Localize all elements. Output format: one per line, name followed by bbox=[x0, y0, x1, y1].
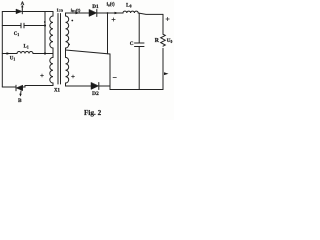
inductor L1 bbox=[17, 52, 33, 54]
plus mark output bbox=[166, 17, 169, 20]
primary polarity dot bbox=[44, 21, 46, 23]
inductor Lo bbox=[123, 11, 138, 13]
wire C1 rail bbox=[2, 25, 21, 27]
wire center tap to right bbox=[66, 50, 111, 90]
wire secondary top to D1 bbox=[66, 12, 90, 14]
wire primary bottom rail bbox=[23, 83, 53, 87]
svg-text:U1: U1 bbox=[10, 57, 16, 62]
wire top rail left bbox=[2, 11, 15, 13]
transformer secondary lower winding bbox=[66, 50, 69, 83]
polarity dot secondary mid bbox=[68, 44, 70, 46]
capacitor C branch wire bbox=[138, 13, 140, 43]
wire bottom right rail bbox=[110, 89, 163, 91]
transformer primary upper winding bbox=[50, 12, 53, 49]
svg-text:iD1(t): iD1(t) bbox=[71, 7, 81, 13]
current arrow U1 bbox=[7, 52, 11, 55]
plus mark secondary lower bbox=[72, 75, 75, 78]
wire vertical from D1 node bbox=[107, 13, 109, 54]
diode D1 bbox=[89, 10, 97, 17]
plus mark rectified bbox=[112, 18, 115, 21]
wire primary upper bottom to node bbox=[52, 48, 54, 54]
resistor R bbox=[161, 34, 166, 46]
wire D1 to corner bbox=[97, 12, 123, 14]
capacitor C plates bbox=[135, 43, 145, 47]
current arrow io bbox=[115, 12, 119, 15]
svg-text:L1: L1 bbox=[24, 44, 29, 49]
transformer core bbox=[57, 14, 59, 85]
switch A bbox=[16, 5, 23, 14]
wire secondary upper bottom to tap bbox=[65, 48, 67, 50]
node dot L1/vertical bbox=[44, 52, 46, 54]
svg-text:A: A bbox=[21, 2, 25, 7]
wire D2 to vertical bbox=[99, 85, 110, 87]
svg-text:C: C bbox=[130, 41, 134, 47]
node dot D1 out bbox=[107, 12, 109, 14]
transformer secondary upper winding bbox=[66, 13, 69, 48]
wire top rail to transformer bbox=[22, 11, 53, 13]
svg-text:i0(t): i0(t) bbox=[107, 3, 115, 8]
svg-text:X1: X1 bbox=[54, 88, 60, 93]
svg-text:C1: C1 bbox=[14, 32, 20, 37]
minus mark rectified bbox=[113, 77, 116, 79]
wire L1 rail bbox=[2, 53, 17, 55]
plus mark primary lower bbox=[41, 74, 44, 77]
diode D2 bbox=[91, 83, 99, 90]
svg-text:D2: D2 bbox=[92, 91, 99, 97]
wire right branch top bbox=[162, 14, 164, 34]
node dot C1/vertical bbox=[44, 24, 46, 26]
capacitor C1 bbox=[21, 23, 24, 28]
secondary polarity dot bbox=[71, 20, 73, 22]
svg-text:Fig. 2: Fig. 2 bbox=[84, 109, 102, 117]
svg-text:B: B bbox=[18, 98, 22, 104]
wire secondary bottom to D2 bbox=[66, 83, 92, 86]
transformer primary lower winding bbox=[50, 54, 53, 84]
current arrow secondary bbox=[76, 12, 80, 15]
wire left rail bbox=[1, 12, 3, 88]
wire L1 to node bbox=[33, 53, 53, 55]
svg-text:1:n: 1:n bbox=[57, 8, 64, 13]
wire right branch bottom bbox=[162, 48, 164, 89]
svg-text:D1: D1 bbox=[92, 4, 99, 10]
switch B bbox=[16, 85, 23, 96]
wire Lo to right corner bbox=[138, 13, 163, 14]
wire vertical x46 bbox=[44, 12, 46, 54]
current arrow return bbox=[164, 72, 169, 75]
